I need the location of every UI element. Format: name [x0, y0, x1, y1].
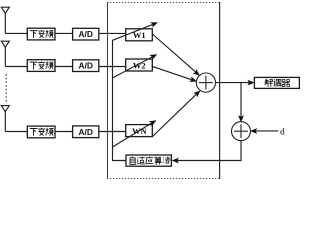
- wire antenna A1 to downconverter 1: [5, 32, 27, 34]
- W2 output line to summer S1: [152, 66, 197, 84]
- svg-text:A/D: A/D: [78, 61, 92, 71]
- enclosure left edge: [107, 2, 109, 179]
- weight W2 box: [126, 59, 153, 71]
- enclosure right edge: [219, 2, 221, 179]
- W1 adjustment arrow: [113, 20, 159, 41]
- adaptive algorithm box (自适应算法): [126, 155, 171, 166]
- W1 output line to summer S1: [152, 34, 201, 78]
- enclosure bottom dotted edge: [107, 178, 220, 180]
- antenna A3: [1, 106, 9, 132]
- downconverter box 1 (下变频): [27, 28, 55, 40]
- WN output line to summer S1: [152, 88, 203, 137]
- wire downconverter3 to A/D 3: [55, 131, 73, 133]
- wire antenna A3 to downconverter 3: [5, 131, 27, 133]
- wire downconverter1 to A/D 1: [55, 32, 73, 34]
- weight W1 box: [126, 29, 153, 41]
- branch node down to summer S2: [238, 83, 244, 123]
- summer S2 circle with plus: [232, 122, 251, 141]
- weight control trunk from adaptive algorithm: [113, 40, 127, 160]
- WN adjustment arrow: [113, 118, 158, 147]
- wire A/D 2 to weight W2: [99, 66, 126, 68]
- antenna A2: [1, 41, 9, 66]
- wire A/D 3 to weight WN: [99, 131, 126, 133]
- weight WN box: [126, 125, 153, 137]
- W2 adjustment arrow: [113, 52, 159, 78]
- enclosure top dotted edge: [107, 2, 220, 4]
- wire downconverter2 to A/D 2: [55, 66, 73, 68]
- antenna A1: [1, 7, 9, 33]
- dashed enclosure box (array processor): [107, 2, 220, 179]
- wire A/D 1 to weight W1: [99, 32, 126, 34]
- summer S1 circle with plus: [196, 73, 215, 92]
- A/D converter box 1: [73, 28, 99, 40]
- svg-text:A/D: A/D: [78, 127, 92, 137]
- demodulator box (解调器): [254, 77, 299, 88]
- downconverter box 3 (下变频): [27, 126, 55, 138]
- A/D converter box 2: [73, 60, 99, 72]
- svg-text:d: d: [280, 127, 285, 137]
- error feedback wire summer S2 to adaptive algorithm: [172, 141, 241, 164]
- svg-text:A/D: A/D: [78, 29, 92, 39]
- ellipsis dots between antennas: [5, 74, 7, 103]
- reference input d wire: [250, 128, 278, 134]
- downconverter box 2 (下变频): [27, 60, 55, 72]
- A/D converter box 3: [73, 126, 99, 138]
- wire summer S1 to demodulator: [216, 80, 255, 86]
- wire antenna A2 to downconverter 2: [5, 66, 27, 68]
